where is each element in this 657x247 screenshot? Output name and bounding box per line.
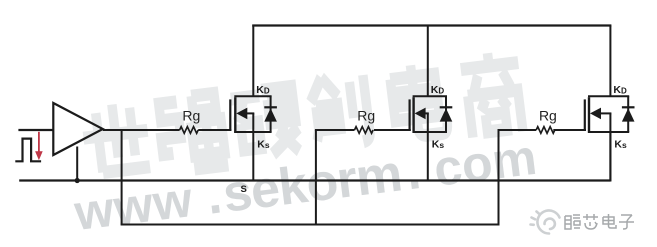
transistor Q1 source lead: [234, 131, 271, 133]
transistor Q2 source lead: [413, 131, 447, 133]
transistor Q2 body arrow: [415, 108, 426, 120]
diode D2 cathode bar: [440, 106, 453, 108]
svg-text:Ks: Ks: [432, 139, 445, 151]
transistor Q3 channel bar: [588, 97, 590, 133]
wire Q3 drain to top rail: [609, 26, 611, 97]
wire gate bus drop 3: [498, 130, 500, 225]
wire common source S rail: [19, 179, 610, 181]
wire Rg2 to Q2 gate: [374, 129, 411, 131]
wire gate bus drop 2: [315, 130, 317, 225]
wire top drain rail: [252, 24, 611, 26]
wire Q3 kelvin source down: [609, 132, 611, 181]
transistor Q1 source internal wire: [252, 113, 254, 132]
wire gate bus drop 1: [121, 130, 123, 225]
wire Q2 kelvin source down: [427, 132, 429, 181]
svg-text:Rg: Rg: [182, 108, 200, 124]
resistor Rg2 zigzag: [355, 127, 374, 134]
wire driver return to S rail: [76, 147, 78, 181]
wire Rg3 to Q3 gate: [553, 129, 586, 131]
transistor Q3 source internal wire: [609, 113, 611, 132]
svg-text:KD: KD: [256, 84, 270, 96]
svg-text:KD: KD: [613, 84, 627, 96]
svg-text:Ks: Ks: [257, 139, 270, 151]
wire S rail riser to Q3 source: [609, 132, 611, 182]
transistor Q1 body arrow: [236, 108, 247, 120]
logo text 瞻芯电子: [565, 214, 634, 229]
wire driver output to Rg1: [103, 129, 180, 131]
svg-text:Rg: Rg: [357, 108, 375, 124]
wire input line to driver: [18, 129, 53, 131]
transistor Q3 body arrow: [590, 108, 601, 120]
wire Q1 kelvin source down: [252, 132, 254, 181]
diode D3 cathode bar: [622, 106, 635, 108]
svg-text:S: S: [241, 184, 247, 195]
transistor Q2 source internal wire: [427, 113, 429, 132]
transistor Q1 channel bar: [234, 97, 236, 133]
diode D3 branch wire: [627, 96, 629, 132]
transistor Q1 gate bar: [229, 99, 231, 130]
resistor Rg3 zigzag: [536, 127, 555, 134]
transistor Q2 drain lead: [413, 95, 447, 97]
logo icon swirl: [531, 211, 560, 234]
op-amp U1 driver buffer: [53, 103, 103, 155]
pulse source symbol: [15, 139, 41, 162]
transistor Q3 gate bar: [584, 99, 586, 130]
red falling-edge arrow: [38, 132, 40, 153]
transistor Q3 drain lead: [588, 95, 629, 97]
svg-text:.sekorm: .sekorm: [203, 144, 404, 225]
wire Rg1 to Q1 gate: [198, 129, 231, 131]
diode D1 branch wire: [270, 96, 272, 132]
watermark url www.sekorm.com: [70, 128, 539, 242]
svg-text:KD: KD: [431, 84, 445, 96]
transistor Q1 drain lead: [234, 95, 271, 97]
wire Q2 drain to top rail: [427, 26, 429, 97]
wire gate bus to Rg2: [315, 129, 355, 131]
diode D2 branch wire: [445, 96, 447, 132]
diode D2 triangle: [440, 108, 453, 121]
resistor Rg1 zigzag: [180, 127, 199, 134]
diode D1 cathode bar: [264, 106, 277, 108]
svg-text:Ks: Ks: [614, 139, 627, 151]
wire gate bus bottom rail: [121, 224, 500, 226]
transistor Q2 gate bar: [409, 99, 411, 130]
transistor Q2 channel bar: [412, 97, 414, 133]
watermark chinese characters 世强硬创电商: [79, 50, 526, 185]
wire Q1 drain to top rail: [252, 26, 254, 97]
diode D1 triangle: [264, 108, 277, 121]
junction dot on S rail: [75, 178, 80, 183]
svg-text:Rg: Rg: [539, 108, 557, 124]
wire gate bus to Rg3: [498, 129, 537, 131]
diode D3 triangle: [622, 108, 635, 121]
transistor Q3 source lead: [588, 131, 629, 133]
